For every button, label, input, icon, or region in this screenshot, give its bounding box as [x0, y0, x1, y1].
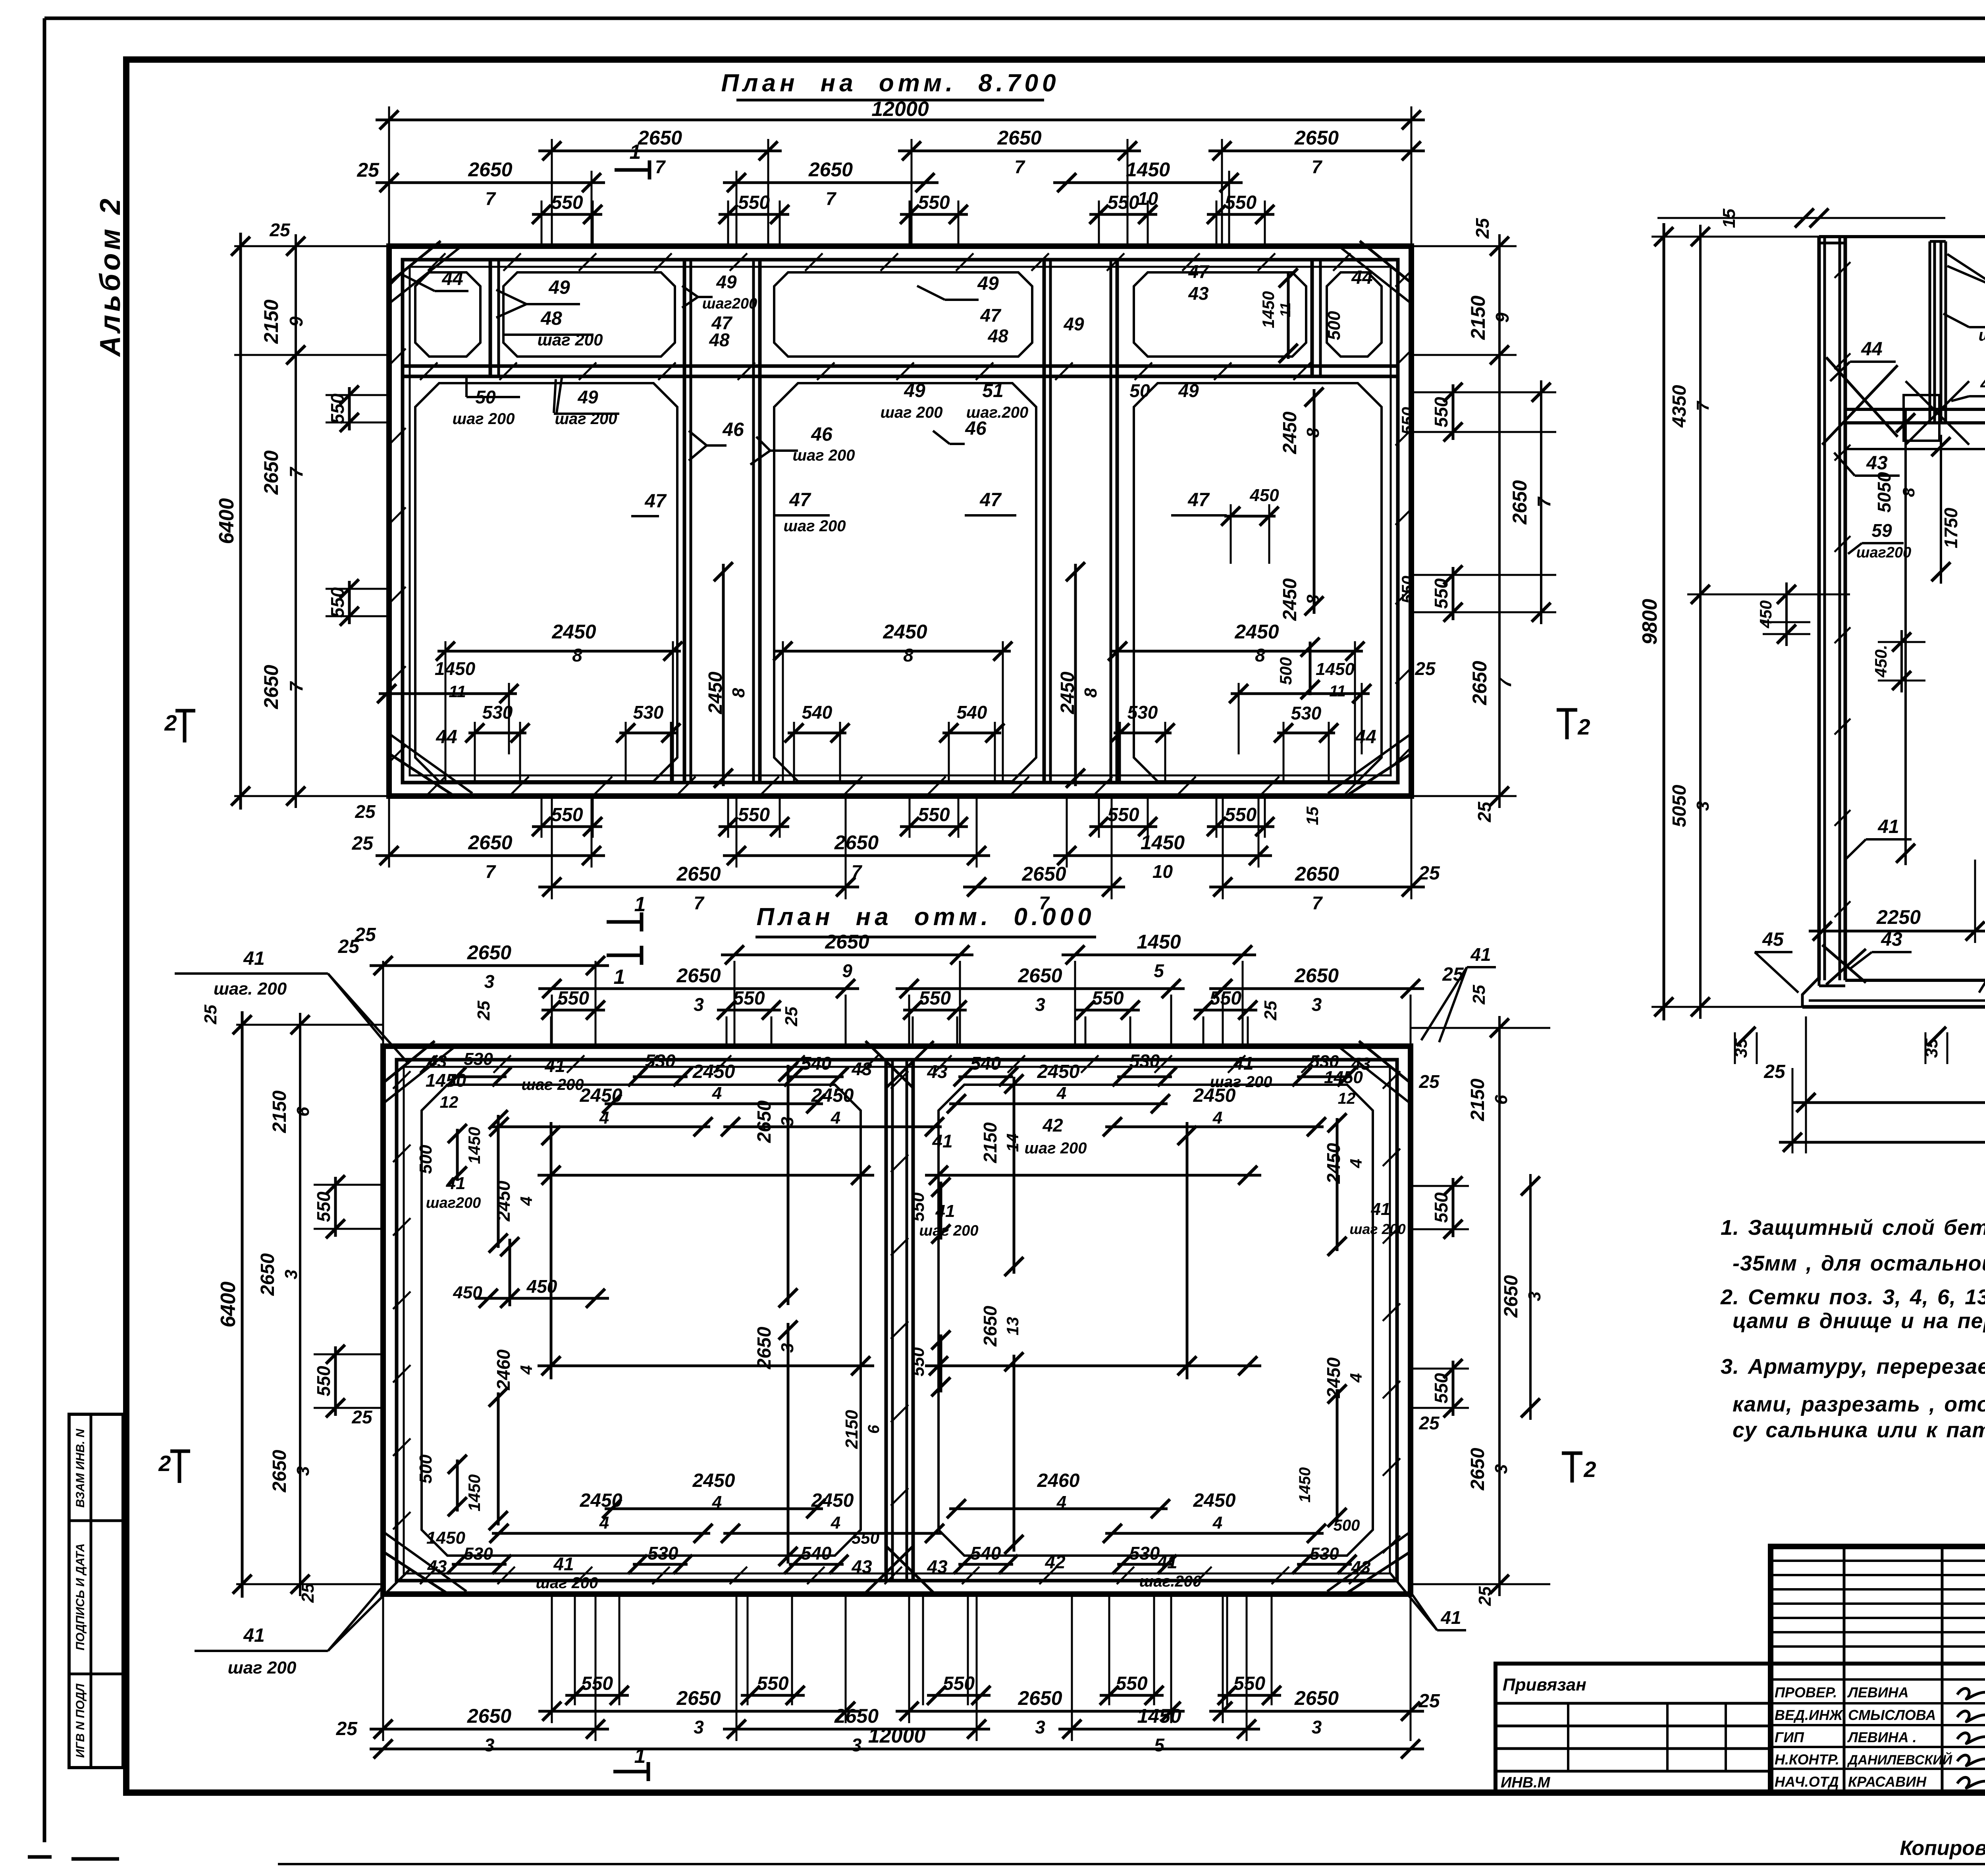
svg-text:ками, разрезать , отогнуть и: ками, разрезать , отогнуть и приварить к…: [1733, 1392, 1985, 1416]
svg-text:43: 43: [851, 1059, 872, 1079]
dim 2650/3 btop row2 c: [1209, 987, 1424, 990]
svg-text:25: 25: [336, 1718, 358, 1739]
svg-text:1450: 1450: [465, 1474, 484, 1511]
svg-text:43: 43: [1881, 929, 1902, 950]
svg-text:2: 2: [158, 1451, 171, 1476]
dim 2650/7 mid row2 c: [1209, 886, 1425, 889]
svg-text:550: 550: [327, 587, 348, 618]
svg-text:4350: 4350: [1669, 385, 1690, 428]
dim 2650/7 mid row2 a: [538, 886, 859, 889]
svg-text:550: 550: [551, 804, 583, 825]
svg-text:2650: 2650: [1467, 1448, 1488, 1490]
svg-text:11: 11: [449, 682, 466, 701]
svg-text:550: 550: [313, 1192, 334, 1222]
top plan interior dim 1450 left: [379, 692, 517, 695]
dim 12000 bottom: [370, 1748, 1424, 1751]
top plan corridor dim line 2: [1074, 564, 1077, 786]
svg-text:10: 10: [1152, 861, 1173, 882]
svg-text:4: 4: [831, 1513, 840, 1533]
svg-text:25: 25: [1469, 985, 1489, 1005]
svg-text:47: 47: [644, 491, 667, 512]
svg-text:41: 41: [935, 1201, 955, 1221]
svg-text:2650: 2650: [754, 1100, 775, 1143]
svg-text:шаг 200: шаг 200: [452, 410, 515, 428]
dim 550 above bottom plan #1: [542, 1009, 605, 1012]
svg-text:9: 9: [1492, 312, 1513, 323]
top plan corridor dim line 1: [722, 564, 725, 786]
top plan strip bottom wall line a: [403, 364, 1398, 368]
svg-text:51: 51: [982, 380, 1003, 401]
sec dim 450 left upper: [1785, 582, 1788, 646]
dim 550 right a: [1452, 384, 1455, 440]
svg-text:530: 530: [1291, 703, 1322, 723]
svg-text:46: 46: [811, 424, 833, 445]
sec left ext lines: [1652, 236, 1819, 238]
svg-text:48: 48: [987, 326, 1008, 346]
svg-text:2650: 2650: [638, 127, 682, 149]
sec left col 4350/5050: [1699, 225, 1702, 1019]
section bottom slab: [1845, 979, 1985, 982]
svg-text:25: 25: [1418, 1413, 1440, 1433]
dim 550 left d: [334, 1346, 337, 1416]
svg-text:8: 8: [1899, 488, 1918, 497]
section mark T2 right bottom: [1562, 1452, 1582, 1455]
svg-text:25: 25: [1261, 1001, 1280, 1020]
bottom plan interior dims 2450 staggered bottom: [492, 1532, 710, 1535]
bottom plan center wall brace top: [865, 1041, 913, 1088]
svg-text:550: 550: [918, 804, 950, 825]
stamp strip divider 1: [69, 1519, 126, 1522]
svg-text:2450: 2450: [692, 1470, 735, 1491]
svg-text:7: 7: [1494, 677, 1515, 688]
dim 2650/9 under title: [721, 954, 973, 956]
svg-text:530: 530: [464, 1049, 493, 1069]
svg-text:СМЫСЛОВА: СМЫСЛОВА: [1848, 1707, 1936, 1723]
svg-text:44: 44: [441, 268, 463, 289]
top plan corner brace TR: [1360, 241, 1410, 282]
svg-text:шаг 200: шаг 200: [1024, 1139, 1087, 1157]
svg-text:ЛЕВИНА: ЛЕВИНА: [1847, 1684, 1909, 1701]
svg-text:500: 500: [1276, 657, 1295, 685]
svg-text:2450: 2450: [692, 1061, 735, 1082]
svg-text:12: 12: [440, 1093, 459, 1111]
top plan strip bottom wall line b: [403, 375, 1398, 378]
svg-text:3: 3: [281, 1270, 301, 1279]
svg-text:цами в днище и на пересеч: цами в днище и на пересечении стен.: [1733, 1309, 1985, 1333]
svg-text:-35мм , для остальной армату: -35мм , для остальной арматуры -20 мм.: [1733, 1251, 1985, 1275]
svg-text:1450: 1450: [1137, 1705, 1181, 1727]
sheet outer edge left: [43, 18, 46, 1842]
svg-text:46: 46: [965, 418, 987, 439]
bottom plan interior dims 530 row bottom: [452, 1563, 507, 1566]
svg-text:8: 8: [572, 645, 582, 665]
svg-text:4: 4: [1212, 1513, 1222, 1533]
svg-text:47: 47: [980, 305, 1002, 326]
svg-text:41: 41: [1233, 1053, 1253, 1074]
svg-text:4: 4: [831, 1108, 840, 1128]
svg-text:Н.КОНТР.: Н.КОНТР.: [1775, 1751, 1839, 1768]
dim 550 below top plan #2: [719, 825, 789, 828]
svg-text:1. Защитный слой бетона дл: 1. Защитный слой бетона для нижней армат…: [1721, 1216, 1985, 1240]
dim 550 below top plan #5: [1207, 825, 1274, 828]
svg-text:7: 7: [286, 467, 306, 478]
svg-text:НАЧ.ОТД: НАЧ.ОТД: [1775, 1774, 1839, 1790]
svg-text:шаг 200: шаг 200: [521, 1076, 584, 1093]
bottom plan inner mesh line: [404, 1067, 1390, 1573]
svg-text:Копировал Подлевская: Копировал Подлевская: [1900, 1837, 1985, 1860]
svg-text:2650: 2650: [1469, 661, 1491, 705]
svg-text:ИГВ N ПОДЛ: ИГВ N ПОДЛ: [74, 1683, 87, 1758]
svg-text:49: 49: [1980, 373, 1985, 394]
left col line top plan: [295, 234, 297, 808]
svg-text:2650: 2650: [260, 665, 282, 709]
title block upper grid hlines: [1771, 1560, 1985, 1562]
svg-text:25: 25: [1474, 801, 1495, 823]
svg-text:4: 4: [517, 1365, 536, 1375]
svg-text:2650: 2650: [468, 831, 512, 854]
svg-text:7: 7: [485, 861, 496, 882]
sec ext bottom: [1805, 1016, 1807, 1153]
svg-text:530: 530: [648, 1543, 678, 1564]
svg-text:2650: 2650: [834, 831, 879, 854]
svg-text:2150: 2150: [980, 1122, 1000, 1163]
svg-text:1450: 1450: [465, 1127, 484, 1164]
dim 1450/5 btop row1: [1062, 954, 1256, 956]
svg-text:44: 44: [1355, 727, 1376, 748]
svg-text:2650: 2650: [676, 1687, 721, 1709]
top plan interior dim 2450 C1: [437, 650, 681, 653]
dim 550 right c: [1452, 1178, 1455, 1237]
svg-text:550: 550: [551, 192, 583, 213]
svg-text:47: 47: [979, 490, 1002, 511]
svg-text:41: 41: [1371, 1199, 1391, 1219]
svg-text:550: 550: [1398, 407, 1417, 435]
sec dim 5050/8 left: [1904, 411, 1907, 865]
svg-text:550: 550: [1431, 1192, 1451, 1223]
svg-text:шаг 200: шаг 200: [536, 1574, 598, 1592]
svg-text:шаг200: шаг200: [1856, 544, 1912, 561]
svg-text:3. Арматуру, перерезаемую са: 3. Арматуру, перерезаемую сальниками и п…: [1721, 1355, 1985, 1379]
svg-text:3: 3: [1525, 1292, 1544, 1301]
top plan chamber 3 outline: [1134, 383, 1382, 781]
svg-text:49: 49: [716, 272, 737, 292]
bottom plan hatch right wall: [1383, 1071, 1400, 1089]
svg-text:ГИП: ГИП: [1775, 1729, 1804, 1745]
svg-text:1: 1: [630, 141, 641, 164]
svg-text:ВЕД.ИНЖ: ВЕД.ИНЖ: [1775, 1707, 1843, 1723]
svg-text:25: 25: [1475, 1586, 1495, 1606]
svg-text:4: 4: [1056, 1084, 1066, 1103]
privyazan box: [1495, 1664, 1771, 1793]
top plan interior dim 2450 C2: [775, 650, 1011, 653]
svg-text:59: 59: [1871, 520, 1892, 541]
svg-text:47: 47: [1188, 261, 1210, 282]
svg-text:41: 41: [544, 1055, 565, 1076]
bottom plan center wall brace bottom: [865, 1546, 913, 1593]
svg-text:530: 530: [1310, 1544, 1339, 1564]
svg-text:1: 1: [614, 966, 625, 989]
top plan hatch right wall: [1395, 269, 1413, 287]
top plan chamber 2 outline: [774, 383, 1036, 781]
bottom plan corner brace TL: [384, 1041, 435, 1082]
svg-text:25: 25: [355, 801, 376, 822]
bottom plan chamber 1 outline: [422, 1085, 861, 1556]
svg-text:550: 550: [908, 1192, 928, 1222]
svg-text:2650: 2650: [808, 158, 853, 181]
svg-text:25: 25: [269, 220, 291, 240]
svg-text:43: 43: [851, 1556, 872, 1577]
svg-text:47: 47: [1187, 490, 1210, 511]
svg-text:43: 43: [427, 1557, 447, 1576]
dim 550 above bottom plan #2: [717, 1009, 781, 1012]
ext lines below bottom plan: [574, 1594, 576, 1705]
dim 550 left b: [348, 581, 351, 624]
stamp strip divider 2: [69, 1673, 126, 1675]
svg-text:6: 6: [1492, 1095, 1511, 1105]
bottom plan hatch bottom wall: [420, 1567, 437, 1584]
svg-text:6400: 6400: [215, 498, 238, 544]
dim 2650/3 bbot row1 c: [1209, 1710, 1424, 1713]
svg-text:25: 25: [1472, 218, 1493, 239]
svg-text:550: 550: [943, 1673, 975, 1694]
svg-text:41: 41: [1440, 1607, 1461, 1628]
svg-text:2650: 2650: [468, 158, 512, 181]
dim 2650/7 mid row1 b: [723, 854, 990, 857]
section top edge: [1819, 235, 1985, 238]
svg-text:49: 49: [904, 380, 925, 401]
svg-text:550: 550: [1233, 1673, 1265, 1694]
dim 550 left c: [334, 1177, 337, 1237]
svg-text:КРАСАВИН: КРАСАВИН: [1848, 1774, 1927, 1790]
svg-text:2450: 2450: [551, 621, 596, 643]
svg-text:41: 41: [1877, 816, 1899, 837]
svg-text:ИНВ.М: ИНВ.М: [1501, 1774, 1551, 1791]
svg-text:3: 3: [1693, 801, 1713, 811]
svg-text:500: 500: [416, 1145, 436, 1174]
stamp strip box: [69, 1414, 123, 1768]
top plan corner brace BL: [390, 754, 453, 795]
svg-text:9: 9: [842, 960, 852, 981]
section floor brace pipe: [1906, 381, 1969, 445]
top plan interior dim 500 C3 vert: [1309, 642, 1312, 695]
right col line B bottom plan: [1529, 1174, 1532, 1420]
svg-text:550: 550: [908, 1347, 928, 1377]
svg-text:41: 41: [932, 1131, 952, 1151]
svg-text:550: 550: [757, 1673, 788, 1694]
svg-text:3: 3: [1492, 1464, 1511, 1474]
svg-text:540: 540: [957, 702, 987, 723]
bottom plan hatch left wall: [393, 1071, 410, 1089]
svg-text:550: 550: [738, 192, 770, 213]
svg-text:3: 3: [694, 1717, 704, 1737]
svg-text:7: 7: [1534, 496, 1554, 507]
svg-text:2250: 2250: [1876, 906, 1921, 928]
svg-text:шаг 200: шаг 200: [1979, 326, 1985, 344]
svg-text:11: 11: [1277, 302, 1293, 317]
svg-text:550: 550: [852, 1529, 879, 1547]
title block sig rows: [1771, 1678, 1985, 1681]
svg-text:540: 540: [801, 1053, 832, 1074]
svg-text:2: 2: [1577, 714, 1590, 739]
svg-text:43: 43: [927, 1061, 948, 1082]
svg-text:1750: 1750: [1941, 507, 1961, 548]
svg-text:550: 550: [738, 804, 770, 825]
top plan interior dims 530 C1: [468, 732, 526, 735]
svg-text:1450: 1450: [1126, 158, 1170, 181]
svg-text:550: 550: [733, 988, 765, 1009]
sec dim 6800: [1779, 1141, 1985, 1144]
svg-text:2650: 2650: [676, 964, 721, 987]
svg-text:ПОДПИСЬ И ДАТА: ПОДПИСЬ И ДАТА: [74, 1543, 87, 1650]
svg-text:2450: 2450: [1280, 578, 1301, 621]
svg-text:550: 550: [327, 393, 348, 424]
svg-text:3: 3: [484, 1735, 495, 1755]
svg-text:ПРОВЕР.: ПРОВЕР.: [1775, 1684, 1837, 1701]
svg-text:12: 12: [1338, 1090, 1356, 1107]
top plan strip room 2: [503, 272, 675, 357]
dim 12000 top: [376, 119, 1425, 121]
dim 550 above bottom plan #5: [1194, 1009, 1257, 1012]
svg-text:2650: 2650: [1295, 863, 1339, 885]
section slab corner brace left: [1822, 945, 1866, 983]
svg-text:5: 5: [1154, 960, 1164, 981]
svg-text:450.: 450.: [1871, 645, 1890, 678]
ext lines below top plan: [541, 796, 543, 838]
svg-text:2650: 2650: [467, 941, 511, 964]
svg-text:550: 550: [919, 988, 951, 1009]
svg-text:450: 450: [1756, 600, 1775, 629]
top plan strip room 1: [415, 272, 480, 357]
ext lines right bottom plan: [1411, 1027, 1550, 1029]
bottom plan corner brace TR: [1359, 1041, 1409, 1082]
svg-text:2450: 2450: [1323, 1143, 1344, 1184]
dim 2650/3 btop row2 a: [538, 987, 859, 990]
svg-text:3: 3: [1035, 994, 1045, 1015]
bottom plan interior dims 530 row top: [452, 1076, 507, 1078]
top plan strip partition wall 2: [1310, 260, 1314, 376]
top plan corridor 2 wall right: [1110, 260, 1112, 783]
svg-text:5050: 5050: [1669, 785, 1690, 827]
bottom plan interior dim lines: [538, 1174, 874, 1177]
svg-text:530: 530: [1129, 1051, 1160, 1071]
svg-text:ЛЕВИНА .: ЛЕВИНА .: [1847, 1729, 1917, 1745]
svg-text:44: 44: [1351, 267, 1372, 288]
top plan strip room 5: [1327, 272, 1382, 357]
svg-text:3: 3: [852, 1735, 862, 1755]
svg-text:25: 25: [354, 924, 376, 945]
svg-text:550: 550: [1431, 1373, 1451, 1404]
svg-text:План на отм. 0.000: План на отм. 0.000: [756, 903, 1095, 931]
ext lines left top plan: [234, 245, 389, 247]
svg-text:550: 550: [1431, 397, 1451, 427]
svg-text:4: 4: [712, 1084, 722, 1103]
dim 2650/3 bbot row1 b: [896, 1710, 1185, 1713]
top plan corridor 2 wall left: [1043, 260, 1046, 783]
dim 550 below top plan #3: [900, 825, 968, 828]
svg-text:540: 540: [802, 702, 833, 723]
svg-text:8: 8: [1081, 688, 1100, 698]
svg-text:450: 450: [526, 1276, 557, 1297]
svg-text:45: 45: [1762, 929, 1784, 950]
top plan interior dim ext verticals: [445, 641, 447, 781]
bottom plan chamber 2 outline: [939, 1085, 1373, 1556]
svg-text:6: 6: [865, 1425, 883, 1434]
svg-text:49: 49: [1063, 314, 1084, 334]
top plan label leaders: [435, 290, 468, 292]
dim 2650/7 mid row1 a: [376, 854, 605, 857]
svg-text:8: 8: [903, 645, 913, 665]
svg-text:шаг 200: шаг 200: [880, 404, 942, 421]
dim 1450/10 mid row1: [1053, 854, 1272, 857]
section left wall: [1817, 237, 1821, 980]
svg-text:2450: 2450: [1193, 1490, 1236, 1511]
svg-text:2650: 2650: [754, 1327, 775, 1369]
svg-text:550: 550: [1116, 1673, 1147, 1694]
svg-text:9: 9: [286, 316, 306, 327]
svg-text:шаг 200: шаг 200: [228, 1658, 297, 1677]
svg-text:42: 42: [1042, 1115, 1063, 1136]
svg-text:41: 41: [1470, 944, 1491, 965]
svg-text:550: 550: [1107, 192, 1139, 213]
top plan strip room 4: [1134, 272, 1306, 357]
svg-text:530: 530: [645, 1051, 676, 1071]
title block upper grid vlines: [1843, 1546, 1846, 1793]
svg-text:48: 48: [540, 308, 562, 329]
svg-text:8: 8: [1255, 645, 1265, 665]
top plan interior dim 2450 C3 vert: [1313, 389, 1316, 614]
svg-text:2: 2: [1583, 1457, 1596, 1482]
svg-text:2650: 2650: [1294, 127, 1339, 149]
top plan corridor 1 wall right: [752, 260, 755, 783]
svg-text:25: 25: [1418, 1691, 1440, 1712]
svg-text:2650: 2650: [980, 1305, 1000, 1347]
svg-text:43: 43: [1866, 453, 1888, 474]
dim 2650/7 row A1: [538, 150, 782, 152]
svg-text:43: 43: [927, 1556, 948, 1577]
svg-text:2150: 2150: [269, 1090, 290, 1133]
top plan strip partition wall 1: [489, 260, 492, 376]
bottom plan interior dims 2450 staggered top: [492, 1126, 710, 1128]
bottom plan hatch center wall: [891, 1071, 908, 1089]
svg-text:шаг 200: шаг 200: [792, 447, 855, 464]
svg-text:530: 530: [464, 1544, 493, 1564]
svg-text:1450: 1450: [426, 1528, 465, 1548]
dim 550 below bottom plan #1: [565, 1694, 629, 1697]
svg-text:4: 4: [1347, 1373, 1365, 1382]
section pipe brace boxes: [1904, 395, 1939, 441]
svg-text:ВЗАМ ИНВ. N: ВЗАМ ИНВ. N: [74, 1428, 87, 1508]
bottom plan corner brace BL: [384, 1552, 447, 1593]
svg-text:6: 6: [293, 1107, 313, 1116]
svg-text:2650: 2650: [1018, 964, 1062, 987]
svg-text:Альбом 2: Альбом 2: [94, 195, 126, 357]
top plan hatch top wall: [428, 253, 445, 271]
dim 550 top row #4: [1089, 213, 1157, 216]
right col line B top plan: [1540, 380, 1542, 624]
svg-text:49: 49: [577, 387, 598, 407]
section floor 8.700 slab: [1845, 408, 1985, 411]
top plan hatch left wall: [388, 269, 406, 287]
svg-text:41: 41: [553, 1554, 574, 1574]
top plan interior dims 530 C3: [1114, 732, 1172, 735]
top plan strip dim 1450 vert: [1287, 272, 1290, 359]
svg-text:540: 540: [971, 1053, 1001, 1074]
svg-text:25: 25: [782, 1006, 801, 1026]
svg-text:2650: 2650: [1509, 480, 1531, 524]
svg-text:550: 550: [581, 1673, 613, 1694]
svg-text:25: 25: [1418, 863, 1440, 884]
dim 2650/3 btop row2 b: [896, 987, 1185, 990]
